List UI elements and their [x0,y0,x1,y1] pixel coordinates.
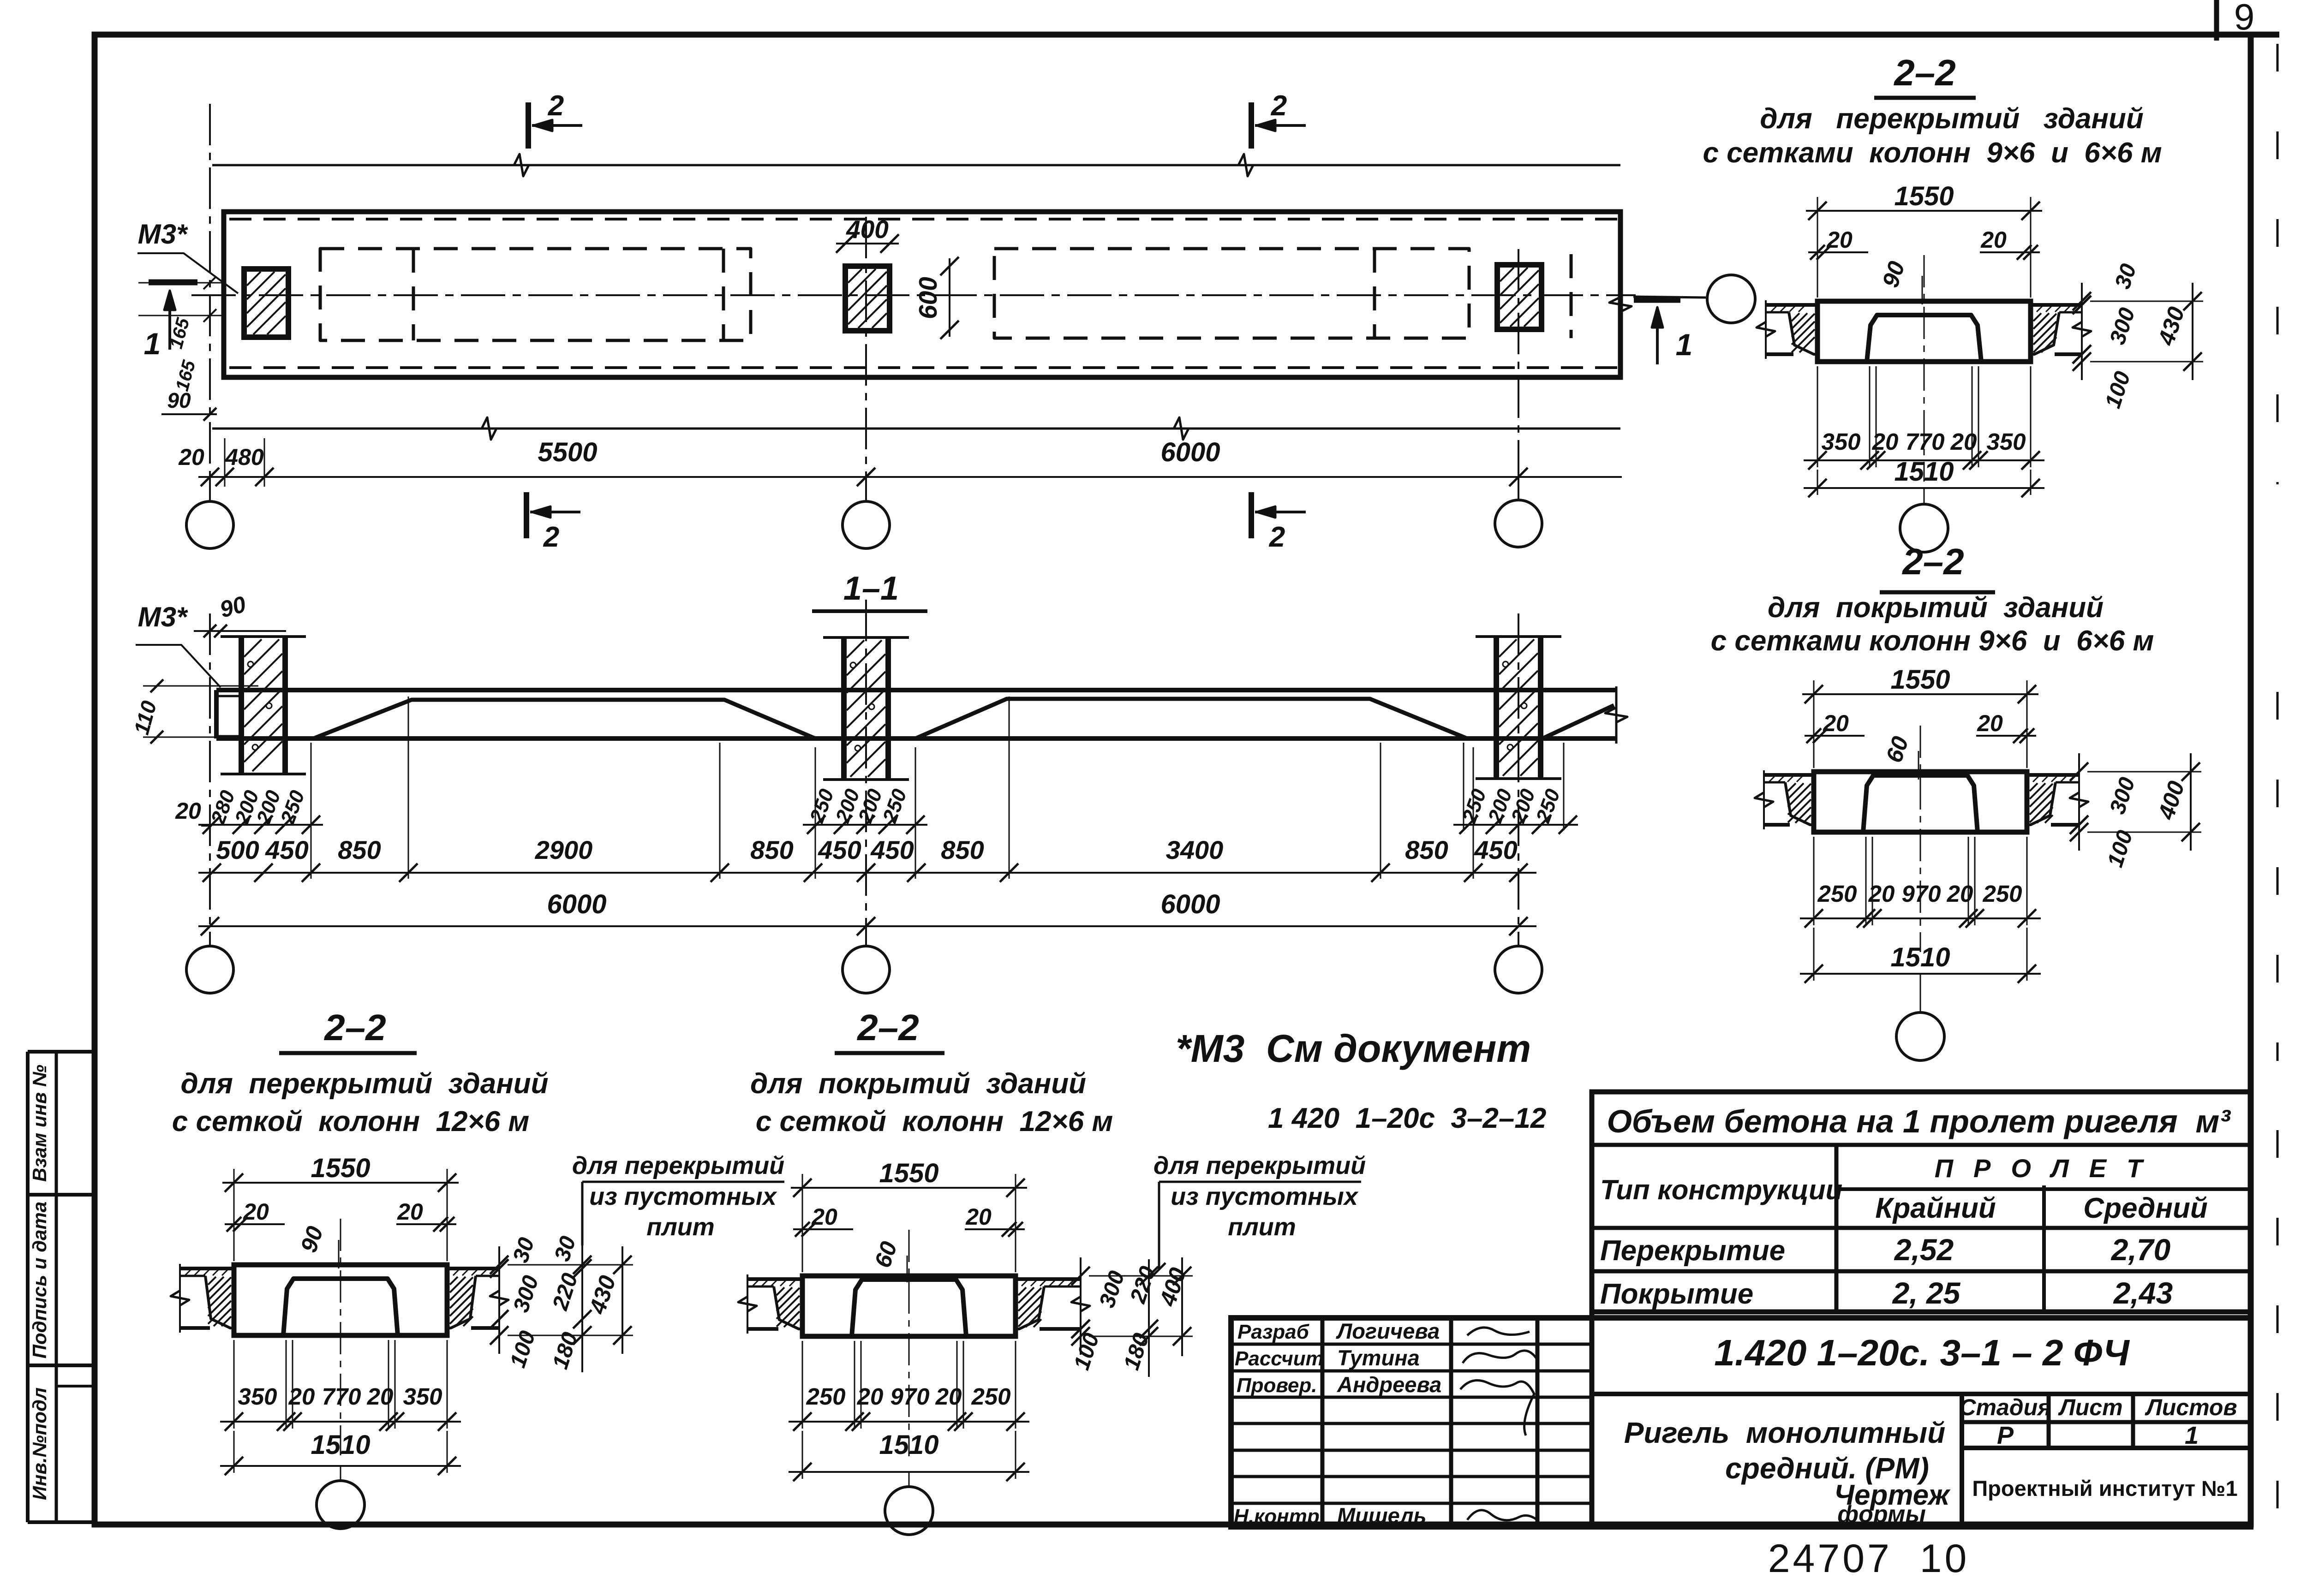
svg-text:2–2: 2–2 [856,1007,919,1048]
svg-text:с сетками колонн 9×6 и 6×6: с сетками колонн 9×6 и 6×6 м [1703,137,2162,169]
elevation haunch start right of column C [1542,705,1614,738]
volume table outer [1592,1092,2251,1312]
svg-text:20: 20 [1872,429,1899,455]
svg-text:Лист: Лист [2058,1394,2122,1420]
section bottom extension lines [1817,366,1818,467]
dashed margin line right of frame [2277,44,2279,484]
plan girder top dashed edge [229,218,1617,220]
svg-text:850: 850 [1405,835,1448,864]
svg-text:1550: 1550 [879,1158,938,1188]
svg-text:350: 350 [1986,429,2026,455]
section mark 1 right [1634,297,1680,303]
svg-text:2,43: 2,43 [2113,1276,2173,1310]
svg-text:для покрытий зданий: для покрытий зданий [750,1068,1086,1100]
svg-text:Объем бетона на 1 пролет ригел: Объем бетона на 1 пролет ригеля м³ [1607,1103,2231,1139]
section axis bubble [1924,488,1925,504]
svg-text:450: 450 [1474,835,1517,864]
right dim stack S2 [2078,753,2080,843]
left strip sub divider [56,1385,95,1388]
top frame extension to page number box [2251,32,2279,38]
svg-text:350: 350 [238,1383,277,1410]
section web boss [1863,775,1978,832]
right dim stack S1 [2081,283,2083,323]
section axis bubble [1920,974,1921,1012]
svg-text:20: 20 [397,1199,423,1225]
elevation haunch trapezoid left span [313,700,815,738]
svg-text:Рассчит: Рассчит [1235,1347,1324,1370]
svg-text:2,70: 2,70 [2110,1233,2171,1267]
svg-text:3400: 3400 [1166,835,1224,864]
svg-text:Средний: Средний [2083,1192,2207,1224]
section web boss [283,1279,398,1335]
elevation small dim row column C [1463,743,1464,830]
section girder outline [1817,301,2031,362]
axis line 2 elevation [865,600,867,946]
svg-text:плит: плит [1228,1213,1296,1241]
plan girder bottom dashed edge [229,366,1617,369]
svg-text:Перекрытие: Перекрытие [1600,1235,1785,1267]
svg-text:Разраб: Разраб [1237,1321,1310,1343]
dim 110 elevation left [143,685,258,687]
dim 400 S4 [1181,1257,1183,1356]
svg-text:2,52: 2,52 [1894,1233,1954,1267]
left strip divider 1 [28,1193,95,1197]
svg-text:для покрытий зданий: для покрытий зданий [1768,592,2104,624]
section centerline [340,1219,341,1455]
svg-text:формы: формы [1837,1501,1926,1528]
svg-text:2900: 2900 [535,835,593,864]
section girder outline [234,1265,447,1335]
section mark 2 top right [1249,102,1254,149]
svg-text:20: 20 [175,798,201,824]
section slab stub left [747,1277,802,1281]
plan opening 1 divider b [722,249,725,340]
svg-text:770: 770 [1905,429,1944,455]
svg-text:850: 850 [941,835,984,864]
svg-text:450: 450 [818,835,861,864]
elevation haunch trapezoid right span [915,699,1467,738]
svg-text:20: 20 [1977,710,2003,736]
section bottom extension lines [802,1341,803,1429]
elevation dim row 500 450 850 2900 850 450 450 850 3400 850 450 450 [198,872,1536,874]
section axis bubble [340,1466,341,1481]
section bottom dim row [1804,459,2044,461]
svg-text:Покрытие: Покрытие [1600,1278,1753,1310]
left strip bottom edge [28,1520,95,1524]
svg-text:6000: 6000 [547,889,606,919]
plan opening dashed rect 2 [994,249,1469,338]
svg-text:250: 250 [806,1383,845,1410]
svg-text:20: 20 [178,444,204,470]
plan lower break line [212,428,1620,430]
svg-text:20: 20 [367,1383,394,1410]
dim stack 2 S4 (220 180) [1148,1259,1150,1377]
svg-text:Тип конструкции: Тип конструкции [1600,1174,1842,1205]
section girder outline [802,1276,1016,1336]
plan dim row: 20 480 5500 6000 [198,476,1622,478]
svg-text:Логичева: Логичева [1336,1319,1440,1343]
section web boss [1867,315,1981,362]
svg-text:из пустотных: из пустотных [589,1183,777,1210]
section centerline [908,1230,910,1456]
axis bubble 2 plan [865,477,867,501]
svg-text:2–2: 2–2 [1901,541,1964,582]
svg-text:Инв.№подл: Инв.№подл [29,1388,50,1500]
svg-text:Крайний: Крайний [1875,1192,1996,1224]
axis bubble 1 plan [209,477,211,501]
left strip outer line [26,1052,30,1522]
elevation girder left end [214,690,219,738]
svg-text:для перекрытий: для перекрытий [572,1152,784,1179]
dim 600 right of column B [949,258,950,337]
svg-text:для перекрытий зданий: для перекрытий зданий [1760,103,2143,135]
svg-text:Н.контр: Н.контр [1234,1505,1320,1528]
section slab stub left [1766,303,1817,307]
svg-text:20: 20 [1826,227,1853,253]
svg-text:Взам инв №: Взам инв № [29,1065,50,1182]
svg-text:Подпись и дата: Подпись и дата [29,1202,50,1358]
elevation column C [1494,637,1499,779]
svg-text:М3*: М3* [138,601,188,632]
section mark 2 top left [526,102,531,149]
svg-text:850: 850 [750,835,793,864]
svg-text:Мишель: Мишель [1337,1503,1427,1528]
plan column B hatched [845,266,890,331]
svg-text:ПРОЛЕТ: ПРОЛЕТ [1935,1154,2163,1183]
section slab stub left [1764,773,1814,777]
title block left rows [1231,1343,1592,1346]
svg-text:из пустотных: из пустотных [1171,1183,1359,1210]
section mark 1 left [149,280,197,286]
svg-text:450: 450 [870,835,914,864]
svg-text:90: 90 [167,388,191,412]
svg-text:1510: 1510 [1894,457,1954,487]
volume table header rule [1592,1143,2251,1147]
svg-text:20: 20 [1823,710,1849,736]
title block designation bottom rule [1592,1392,2251,1396]
svg-text:20: 20 [965,1204,992,1230]
extension verticals for plan dim row [224,438,226,487]
svg-text:350: 350 [403,1383,442,1410]
svg-text:20: 20 [935,1383,962,1410]
axis bubble 1 elevation [186,946,233,993]
svg-text:2, 25: 2, 25 [1892,1276,1961,1310]
section bottom extension lines [233,1340,235,1429]
elevation dim row 6000 6000 [198,925,1536,927]
svg-text:2: 2 [1271,90,1287,122]
dim stack 2 S3 (30 220 180) [581,1245,583,1372]
axis 2 centerline vertical [865,217,867,500]
right dim stack S4 [1080,1257,1082,1347]
svg-text:2–2: 2–2 [1893,52,1955,93]
svg-text:970: 970 [1901,881,1941,907]
section slab stub right [2027,773,2079,777]
plan column C hatched [1497,265,1542,329]
svg-text:2: 2 [548,90,564,122]
svg-text:20: 20 [288,1383,315,1410]
section bottom dim row [789,1421,1029,1423]
section centerline [1920,726,1921,952]
page number box tick [2214,0,2219,41]
elevation small dim row left column [198,824,323,826]
svg-text:20: 20 [857,1383,884,1410]
section web boss [852,1280,966,1336]
volume table row line 2 [1592,1269,2251,1274]
section girder outline [1814,772,2027,832]
section centerline [1924,255,1925,482]
svg-text:970: 970 [890,1383,929,1410]
section slab stub right [2031,303,2082,307]
svg-text:6000: 6000 [1160,889,1220,919]
dim 430 S1 [2192,283,2193,380]
plan opening 2 divider [1373,249,1376,338]
svg-text:Проектный институт №1: Проектный институт №1 [1972,1476,2237,1501]
title block designation box top [1590,1312,1595,1527]
elevation column A [239,637,244,774]
left strip divider 2 [28,1364,95,1367]
elevation girder top line [216,688,1616,692]
plan centerline [191,294,1636,296]
title block outer [1231,1318,2251,1527]
svg-text:480: 480 [225,444,264,470]
svg-text:Провер.: Провер. [1237,1374,1317,1397]
left strip inner divider [55,1052,58,1522]
svg-text:2–2: 2–2 [323,1007,386,1048]
dim 430 S3 [622,1246,623,1354]
svg-text:2: 2 [1269,521,1285,553]
svg-text:1510: 1510 [879,1430,938,1460]
plan opening dashed rect 1 [320,249,751,340]
svg-text:Ригель монолитный: Ригель монолитный [1624,1416,1946,1449]
svg-text:2: 2 [543,521,559,553]
svg-text:600: 600 [914,277,942,319]
volume table prolet subdivider [1836,1187,2251,1191]
svg-text:для перекрытий: для перекрытий [1153,1152,1366,1179]
elevation beam end notch at column A [216,695,241,697]
section axis bubble [908,1472,910,1487]
svg-text:Стадия: Стадия [1959,1394,2051,1420]
svg-text:20: 20 [811,1204,837,1230]
plan opening 1 divider a [412,249,415,340]
section slab stub left [180,1267,234,1270]
svg-text:1550: 1550 [311,1153,370,1183]
svg-text:1510: 1510 [311,1430,370,1460]
svg-text:250: 250 [1817,881,1857,907]
axis line 3 elevation [1518,613,1519,946]
right dim stack S3 [498,1246,500,1287]
dim 400 S2 [2190,753,2192,851]
elevation extension verticals [311,743,312,879]
svg-text:20: 20 [1980,227,2007,253]
svg-text:1: 1 [1676,328,1693,362]
svg-text:1: 1 [2185,1422,2199,1449]
svg-text:350: 350 [1821,429,1860,455]
elevation girder right break [1615,686,1618,744]
svg-text:1: 1 [144,327,161,361]
volume table col divider 2 [2042,1185,2046,1312]
plan column A hatched [244,269,288,337]
svg-text:Тутина: Тутина [1337,1346,1420,1370]
axis bubble 3 elevation [1495,946,1542,993]
svg-text:1 420 1–20с 3–2–12: 1 420 1–20с 3–2–12 [1268,1102,1546,1134]
title block stadia header row line [1962,1420,2251,1424]
svg-text:с сеткой колонн 12×6 м: с сеткой колонн 12×6 м [756,1106,1113,1137]
section slab stub right [1016,1277,1081,1281]
plan top break line [212,164,1620,167]
svg-text:*М3 См документ: *М3 См документ [1176,1027,1531,1070]
section bottom dim row [220,1421,461,1423]
svg-text:24707 10: 24707 10 [1768,1536,1970,1581]
svg-text:450: 450 [265,835,308,864]
svg-text:20: 20 [1947,881,1973,907]
svg-text:Андреева: Андреева [1337,1372,1441,1397]
volume table col divider 1 [1835,1145,1839,1312]
plan girder right end break [1609,297,1632,312]
axis bubble 2 elevation [843,946,890,993]
plan girder outline [224,212,1620,377]
signature squiggles [1467,1328,1530,1335]
svg-text:400: 400 [846,215,889,244]
volume table row line 1 [1592,1226,2251,1230]
title block name box divider [1960,1394,1964,1527]
svg-text:1–1: 1–1 [843,570,899,607]
plan right dashed cut edge [1570,254,1573,338]
section mark 2 bottom left [524,492,529,538]
svg-text:250: 250 [1982,881,2022,907]
svg-text:плит: плит [646,1213,715,1241]
axis bubble right of plan [1633,297,1706,298]
section slab stub right [447,1267,499,1270]
axis bubble 3 plan [1518,477,1519,500]
svg-text:6000: 6000 [1160,437,1220,467]
elevation girder bottom line [216,736,1616,741]
svg-text:1550: 1550 [1894,181,1954,211]
svg-text:с сеткой колонн 12×6 м: с сеткой колонн 12×6 м [172,1106,529,1137]
title block left columns [1321,1318,1325,1527]
left strip top edge [28,1050,95,1054]
elevation column B [841,637,847,780]
section bottom dim row [1800,917,2041,919]
elevation small dim row column B [803,824,927,826]
svg-text:250: 250 [971,1383,1010,1410]
svg-text:9: 9 [2234,0,2255,37]
svg-text:1.420 1–20с. 3–1 – 2 ФЧ: 1.420 1–20с. 3–1 – 2 ФЧ [1714,1332,2130,1373]
svg-text:20: 20 [1868,881,1895,907]
svg-text:500: 500 [216,835,259,864]
section bottom extension lines [1813,837,1815,925]
svg-text:5500: 5500 [538,437,597,467]
svg-text:1550: 1550 [1890,665,1950,695]
svg-text:с сетками колонн 9×6 и 6×6 м: с сетками колонн 9×6 и 6×6 м [1711,625,2154,657]
axis 3 centerline vertical [1518,249,1519,499]
svg-text:Листов: Листов [2145,1394,2237,1420]
svg-text:для перекрытий зданий: для перекрытий зданий [181,1068,549,1100]
svg-text:Р: Р [1997,1422,2014,1449]
section mark 2 bottom right [1249,492,1254,538]
axis 1 centerline vertical [209,104,211,500]
svg-text:М3*: М3* [138,219,188,250]
svg-text:20: 20 [1950,429,1977,455]
svg-text:770: 770 [322,1383,361,1410]
svg-text:850: 850 [338,835,381,864]
svg-text:20: 20 [243,1199,269,1225]
title block stadia bottom line [1962,1446,2251,1450]
svg-text:1510: 1510 [1890,942,1950,972]
axis line 1 elevation [209,613,211,946]
title block stadia cols [2047,1394,2051,1448]
